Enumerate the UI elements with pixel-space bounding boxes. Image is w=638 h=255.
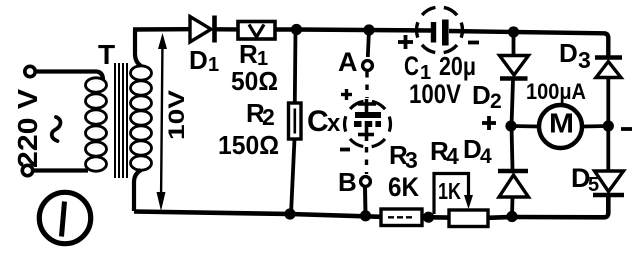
label - (C1 polarity): [468, 41, 479, 45]
svg-text:2: 2: [490, 90, 502, 113]
svg-text:D: D: [472, 80, 491, 110]
figure number 1: [39, 192, 90, 243]
diode D1: [190, 16, 215, 43]
svg-text:R: R: [239, 39, 258, 69]
wire R3 to R4: [422, 215, 449, 220]
label D5: [571, 163, 599, 196]
wire R1 to junction: [275, 27, 296, 31]
diode D2: [500, 56, 529, 79]
wire top terminal to primary: [36, 72, 103, 81]
junction bridge + node: [505, 120, 516, 131]
label D3: [559, 38, 591, 73]
label R3: [389, 140, 418, 173]
svg-text:50Ω: 50Ω: [231, 66, 278, 96]
svg-text:D: D: [559, 38, 578, 68]
wire bottom terminal to primary: [33, 168, 88, 172]
junction R1/R2: [291, 24, 302, 35]
junction bridge top left: [508, 26, 519, 37]
svg-text:A: A: [338, 47, 358, 77]
junction R2 bottom: [284, 208, 295, 219]
label Cx: [307, 105, 341, 138]
wire top rail to node A: [368, 30, 369, 57]
svg-text:220 V: 220 V: [12, 89, 43, 168]
bottom rail: [134, 212, 381, 217]
wire meter right: [582, 124, 608, 128]
transformer primary winding: [86, 78, 107, 171]
junction B bottom: [360, 210, 371, 221]
10V measuring arrow: [157, 33, 168, 211]
svg-text:1K: 1K: [438, 178, 461, 204]
label R4: [430, 136, 459, 169]
meter M (100uA): [539, 105, 582, 148]
label + (Cx polarity): [341, 89, 352, 100]
transformer secondary winding: [131, 66, 152, 170]
svg-text:100V: 100V: [409, 79, 461, 109]
label B: [338, 167, 357, 197]
junction bridge - node: [603, 120, 614, 131]
label 150 ohm: [218, 130, 279, 160]
diode D5: [593, 171, 624, 195]
resistor R4 body: [449, 210, 488, 227]
svg-text:4: 4: [480, 145, 492, 168]
capacitor C1 electrolytic (dashed circle): [417, 7, 463, 53]
label ~ mains: [52, 117, 61, 141]
wire D1 to R1: [216, 27, 238, 32]
terminal bottom: [22, 165, 32, 175]
wire R2 bottom lead: [291, 139, 295, 214]
svg-text:150Ω: 150Ω: [218, 130, 279, 160]
wire secondary top to top rail: [135, 30, 141, 66]
wire R4 to bridge bottom: [488, 215, 512, 220]
label + (bridge): [482, 116, 496, 130]
svg-text:6K: 6K: [388, 172, 419, 202]
wire D4 to bottom junction: [510, 197, 514, 216]
wire C1 to bridge top: [449, 31, 513, 32]
label C1: [404, 51, 431, 84]
svg-text:D: D: [463, 134, 482, 164]
label - (bridge): [621, 127, 632, 131]
wire D3 to - node: [606, 78, 610, 127]
node A terminal: [363, 61, 373, 71]
svg-text:M: M: [549, 108, 574, 139]
wire top rail middle: [296, 30, 433, 31]
svg-text:4: 4: [446, 143, 459, 169]
transformer T label: [98, 39, 115, 70]
label D1: [189, 45, 219, 76]
dashed link Cx to B: [365, 147, 368, 174]
label R2: [246, 98, 275, 130]
terminal top: [25, 66, 35, 76]
svg-text:2: 2: [262, 104, 275, 130]
svg-text:C: C: [307, 105, 329, 138]
wire D2 to + node: [512, 80, 514, 126]
label 100V: [409, 79, 461, 109]
wire meter left: [511, 124, 539, 128]
resistor R2 (| = 1W mark): [289, 103, 302, 139]
svg-text:x: x: [327, 110, 341, 137]
node B terminal: [361, 177, 371, 187]
bottom rail right + corner: [512, 196, 608, 217]
svg-text:20μ: 20μ: [439, 51, 476, 81]
wire top rail left: [133, 27, 189, 32]
svg-text:1: 1: [208, 54, 219, 76]
junction Cx branch: [363, 24, 374, 35]
svg-text:C: C: [404, 51, 419, 81]
label 20u: [439, 51, 476, 81]
wire bridge left upper: [512, 32, 516, 56]
wire node B to bottom rail: [363, 187, 368, 216]
label R1: [239, 39, 268, 70]
label 1K: [438, 178, 461, 204]
transformer core: [115, 63, 127, 178]
label - (Cx polarity): [340, 148, 350, 152]
label 6K: [388, 172, 419, 202]
svg-text:3: 3: [405, 147, 418, 173]
diode D3: [595, 58, 622, 78]
capacitor Cx under test (dashed circle): [345, 99, 391, 147]
resistor R1 (V = 5W mark): [238, 22, 275, 40]
label D2: [472, 80, 502, 113]
label D4: [463, 134, 492, 168]
label + (C1 polarity): [398, 35, 413, 49]
resistor R3: [381, 209, 422, 226]
svg-text:10V: 10V: [164, 90, 189, 140]
dashed link A to Cx: [365, 72, 368, 98]
wire + node to D4: [512, 126, 513, 169]
potentiometer R4 wiper link: [434, 174, 473, 215]
wire top rail right + corner: [514, 32, 609, 56]
label 50 ohm: [231, 66, 278, 96]
label A: [338, 47, 358, 77]
svg-text:D: D: [189, 45, 208, 75]
wire secondary bottom to bottom rail: [134, 170, 141, 211]
label 220V: [12, 89, 43, 168]
wire - node to D5: [606, 126, 610, 170]
label 100uA: [526, 79, 586, 104]
diode D4: [498, 171, 529, 197]
svg-text:3: 3: [578, 47, 591, 73]
label 10V: [164, 90, 189, 140]
svg-text:5: 5: [588, 174, 599, 196]
wire R2 top lead: [293, 30, 298, 103]
junction R4 wiper: [423, 212, 434, 223]
svg-text:B: B: [338, 167, 357, 197]
junction bridge bottom left: [506, 211, 517, 222]
svg-text:100μA: 100μA: [526, 79, 586, 104]
svg-text:T: T: [98, 39, 115, 70]
